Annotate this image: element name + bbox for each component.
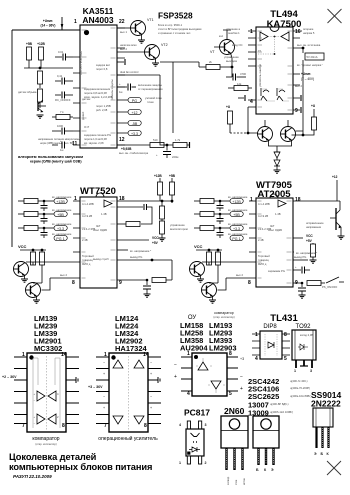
capacitor C11 bottom: [52, 140, 65, 152]
transistor VT1: [131, 18, 154, 36]
svg-text:компаратор: компаратор: [32, 436, 59, 442]
wire supply rail to pin 1: [12, 28, 80, 247]
wire left pin stubs U2: [248, 31, 256, 107]
transistor Q1 output: [258, 127, 273, 142]
ground gnd1: [37, 115, 44, 118]
svg-text:вых 2: вых 2: [60, 273, 67, 277]
svg-text:ФИО д: ФИО д: [258, 262, 267, 266]
capacitor input C5 B: [217, 214, 224, 224]
wire pin12 row: [117, 144, 190, 146]
svg-text:ЗкТ: ЗкТ: [96, 224, 101, 228]
IC U3 WT7520 body: [80, 193, 117, 288]
svg-text:ц(400б-12А 100Вт): ц(400б-12А 100Вт): [270, 410, 293, 414]
svg-text:+5V: +5V: [152, 241, 159, 245]
IC TL431 TO92 package: [292, 330, 316, 360]
wire SS9014 legs: [317, 427, 329, 448]
svg-text:−: −: [103, 395, 105, 399]
svg-text:2: 2: [205, 461, 207, 465]
svg-text:вых 2: вых 2: [236, 273, 243, 277]
svg-text:+12В: +12В: [154, 174, 162, 178]
text vx napr right: [117, 249, 151, 253]
node oval PG in B: [228, 233, 248, 241]
node +U: [226, 105, 231, 109]
resistor VCC pull B: [310, 243, 317, 263]
svg-text:3: 3: [310, 369, 312, 373]
svg-text:РАЗУП 22.10.2009: РАЗУП 22.10.2009: [13, 474, 52, 479]
svg-text:8: 8: [248, 280, 251, 286]
svg-text:MC3302: MC3302: [34, 344, 62, 353]
wire DIP8 A left pins: [181, 357, 192, 391]
svg-text:16: 16: [295, 29, 301, 35]
svg-text:вых 2: вых 2: [295, 84, 302, 88]
text fan control: [170, 224, 188, 231]
svg-text:+3.3: +3.3: [57, 227, 64, 231]
svg-text:задерж вкл: задерж вкл: [96, 64, 110, 67]
svg-text:напряж 5: напряж 5: [303, 31, 315, 35]
svg-text:мсек. звуков. 4,2-6,28В: мсек. звуков. 4,2-6,28В: [84, 95, 113, 99]
svg-text:TO92: TO92: [296, 324, 312, 330]
svg-text:1: 1: [187, 351, 190, 357]
svg-text:Торговый: Торговый: [82, 254, 94, 258]
svg-text:WT7520: WT7520: [80, 186, 116, 197]
svg-text:Б: Б: [256, 468, 259, 472]
svg-text:катод 2,3В: катод 2,3В: [300, 333, 313, 337]
svg-text:15: 15: [258, 49, 261, 53]
wire TL431 TO92 legs: [294, 360, 312, 373]
resistor 12k: [228, 82, 252, 91]
svg-text:напряжение: напряжение: [306, 226, 322, 229]
node oval PG out: [52, 233, 72, 241]
op-amp triangle C1: [196, 362, 212, 370]
transistor VT2: [145, 43, 168, 60]
svg-text:управление: управление: [170, 224, 185, 227]
svg-text:+3.3: +3.3: [131, 132, 138, 136]
label LM193 family: [209, 321, 237, 353]
IC U4 WT7905 body: [256, 194, 293, 287]
text DIP8 plusminus: [174, 357, 244, 392]
wire PG output B: [293, 255, 308, 260]
label FSP3528: [158, 11, 202, 36]
ground Q6: [209, 296, 216, 303]
svg-text:8: 8: [72, 280, 75, 286]
IC TL431 DIP8 package: [260, 331, 282, 359]
svg-text:вывод PG: вывод PG: [294, 255, 306, 259]
node +U right: [311, 104, 316, 117]
svg-text:+5В: +5В: [57, 213, 64, 217]
svg-text:VT1: VT1: [147, 18, 154, 22]
ground Q3: [21, 275, 28, 282]
op-amp triangle A1: [34, 391, 46, 402]
capacitor 1uF protect: [117, 83, 136, 94]
svg-text:0.01: 0.01: [58, 50, 64, 54]
svg-text:РG 1: РG 1: [56, 237, 64, 241]
capacitor C 0.01: [55, 50, 73, 61]
op-amp triangle B4: [134, 395, 152, 424]
svg-text:+Uпит.: +Uпит.: [301, 72, 311, 76]
svg-text:4700: 4700: [240, 72, 246, 76]
node oval +3.3V in B: [228, 223, 248, 231]
node junction dot: [166, 144, 169, 147]
svg-text:товарищ: товарищ: [82, 259, 94, 262]
svg-text:вентилятором: вентилятором: [170, 228, 188, 231]
IC DIP14 comparator package: [27, 353, 66, 432]
svg-text:усилитель ошибки: усилитель ошибки: [258, 64, 262, 87]
svg-text:+3 – 36V: +3 – 36V: [88, 385, 103, 389]
capacitor stub: [238, 95, 245, 101]
resistor input R12 B: [194, 199, 230, 204]
text TO220 B leg labels: [256, 468, 274, 472]
svg-text:вывод PG: вывод PG: [130, 255, 142, 259]
resistor input R12: [18, 199, 54, 204]
pin numbers TL431 DIP8: [255, 332, 287, 362]
svg-text:8: 8: [229, 351, 232, 357]
text comparator caption: [32, 436, 59, 446]
svg-text:1: 1: [250, 197, 253, 203]
transistor VT3: [210, 35, 235, 55]
svg-text:14: 14: [143, 352, 149, 358]
svg-text:ЗкТ: ЗкТ: [270, 224, 275, 228]
wire TO220 A legs: [227, 448, 243, 470]
node oval +3.3V in: [52, 223, 72, 231]
svg-text:(откр. коллектор): (откр. коллектор): [35, 442, 56, 446]
resistor 7k: [52, 110, 73, 120]
IC DIP14 opamp package: [109, 353, 148, 432]
svg-text:алгоритм пользования запуском: алгоритм пользования запуском: [18, 154, 83, 159]
capacitor input C5: [41, 214, 48, 224]
transistor TO220 B package: [253, 416, 279, 448]
svg-text:операционный усилитель: операционный усилитель: [98, 435, 158, 442]
wire VT3 collector: [223, 30, 231, 40]
svg-text:1м: 1м: [60, 148, 63, 152]
wire output transistors: [248, 107, 303, 150]
resistor +12V feed: [154, 174, 163, 201]
transistor Q6 out2 B: [202, 265, 250, 298]
text footer title: [9, 452, 152, 479]
svg-text:2.4В: 2.4В: [82, 238, 88, 242]
svg-text:PG: PG: [132, 99, 137, 103]
label SS9014/2N2222: [311, 390, 342, 409]
resistor VCC div2 B: [216, 252, 221, 265]
resistor R +5V sense: [26, 42, 33, 68]
svg-text:VT2: VT2: [161, 43, 168, 47]
IC PC817 package: [186, 429, 204, 456]
svg-text:12k: 12k: [237, 82, 242, 86]
op-amp triangle B2: [134, 360, 152, 376]
svg-text:вх. напряжение *: вх. напряжение *: [130, 249, 151, 253]
svg-text:включение защиты: включение защиты: [138, 84, 162, 87]
label OU / comparator headers: [188, 311, 235, 321]
pin numbers DIP14 A: [22, 352, 67, 429]
wire DIP14 B left pins: [96, 357, 109, 424]
power pin marker DIP14 B: [158, 377, 160, 383]
svg-text:компаратор: компаратор: [214, 311, 234, 315]
wire mid rail dashed: [230, 132, 246, 134]
capacitor pin9: [300, 95, 302, 113]
svg-text:вых 1: вых 1: [120, 30, 127, 34]
svg-text:заряжаем РG: заряжаем РG: [268, 269, 285, 273]
svg-text:исток: исток: [243, 477, 246, 485]
svg-text:0,41: 0,41: [57, 74, 63, 78]
capacitor 220u: [156, 145, 178, 159]
pin numbers PC817 bottom: [179, 461, 207, 465]
op-amp triangle B1: [103, 360, 123, 376]
svg-text:норм (38В реальн. вел. 5В): норм (38В реальн. вел. 5В): [40, 141, 74, 145]
svg-text:задержка сигнала PG: задержка сигнала PG: [84, 133, 111, 137]
svg-text:керам (ОЛВ (манту шай ОЗВ): керам (ОЛВ (манту шай ОЗВ): [30, 160, 82, 164]
transistor crowbar Q7: [330, 206, 341, 231]
text TO220 A leg labels: [227, 476, 246, 485]
svg-text:наличие всех: наличие всех: [120, 44, 137, 47]
transistor SS9014 TO92 package: [313, 408, 333, 427]
node VCC left B: [194, 244, 222, 251]
wire U4 inner pin name marks: [258, 201, 292, 283]
svg-text:порог 1,25В: порог 1,25В: [96, 104, 111, 108]
svg-text:+12В: +12В: [56, 200, 65, 204]
wire left pin stubs U1: [73, 30, 80, 145]
wire left pin stubs U3: [73, 201, 80, 278]
svg-text:220м: 220м: [172, 155, 178, 159]
node oval +12V in: [52, 196, 72, 204]
node +Upit 7-40V: [301, 72, 314, 81]
wire fan control: [117, 70, 160, 75]
svg-text:вых. вн. источника: вых. вн. источника: [297, 44, 321, 47]
resistor input R5 B: [194, 212, 230, 217]
wire DIP14 A right pins: [66, 357, 79, 424]
svg-text:Асел ОД2Б: Асел ОД2Б: [93, 228, 107, 232]
wire right pin stubs U1: [117, 28, 128, 145]
svg-text:PC817: PC817: [184, 408, 210, 418]
svg-text:ошибки 1: ошибки 1: [228, 31, 240, 35]
transistor Q5 out1 B: [190, 262, 250, 277]
wire TO220 B legs: [259, 448, 274, 465]
wire TL431 DIP8 pins: [252, 334, 290, 355]
switch PS_ON/OFF: [322, 277, 344, 289]
svg-text:Торговый: Торговый: [258, 254, 270, 258]
resistor input R33 B: [194, 226, 230, 231]
node VCC right B: [293, 234, 313, 243]
svg-text:AU2904: AU2904: [180, 344, 208, 353]
label 2SC power transistors: [248, 377, 311, 418]
svg-text:1: 1: [74, 19, 77, 25]
svg-text:8: 8: [62, 423, 65, 429]
svg-text:ФИО д: ФИО д: [82, 262, 91, 266]
resistor +5V feed: [162, 174, 176, 201]
capacitor input C33 B: [217, 228, 224, 238]
svg-text:protect: protect: [81, 112, 85, 120]
transistor Q left shutdown: [38, 100, 46, 112]
svg-text:товарищ: товарищ: [258, 259, 270, 262]
op-amp triangle B3: [103, 395, 123, 424]
wire Vref rail down: [292, 60, 304, 135]
svg-text:8: 8: [284, 332, 287, 338]
svg-text:9: 9: [295, 108, 298, 114]
wire down from VT3: [231, 67, 233, 77]
pin labels U1: [72, 19, 125, 147]
wire KA3511 to TL494 link: [160, 62, 199, 145]
wire left pin stubs U4: [249, 201, 256, 278]
svg-text:мс. звуков. 2,08: мс. звуков. 2,08: [84, 141, 104, 145]
node Vref box 5V 20mA: [297, 44, 324, 60]
resistor 510: [150, 138, 164, 148]
wire sense junction: [24, 67, 73, 69]
text crowbar: [306, 222, 324, 229]
svg-text:4.2-9.2В: 4.2-9.2В: [82, 214, 92, 218]
svg-text:−: −: [240, 374, 243, 380]
svg-text:(откр. коллектор): (откр. коллектор): [213, 315, 234, 319]
svg-text:ОчТ: ОчТ: [84, 125, 89, 129]
svg-text:4.1-4.28В: 4.1-4.28В: [82, 202, 94, 206]
svg-text:3: 3: [205, 423, 207, 427]
svg-text:VCC: VCC: [306, 234, 313, 238]
svg-text:VCC: VCC: [194, 244, 203, 249]
svg-text:1м: 1м: [119, 90, 122, 94]
IC U1 KA3511 body: [79, 25, 117, 148]
ground crowbar: [338, 231, 345, 239]
capacitor input C12: [41, 201, 48, 211]
op-amp triangle C2: [208, 381, 225, 389]
pin labels U2: [250, 29, 301, 114]
X mark top right: [328, 9, 342, 23]
X mark bottom right: [327, 461, 341, 475]
wire DIP8 A right pins: [227, 357, 238, 391]
node dot VT3: [231, 66, 234, 69]
svg-text:1.4В: 1.4В: [101, 212, 107, 216]
svg-text:−: −: [103, 361, 105, 365]
wire DIP14 A left pins: [14, 357, 27, 424]
power pin marker DIP14 A: [76, 377, 78, 383]
resistor fan loop: [117, 222, 140, 227]
wire U2 inner pin name marks: [258, 31, 293, 110]
svg-text:+U: +U: [226, 105, 231, 109]
svg-text:−: −: [150, 395, 152, 399]
svg-text:ц(400-7к 400-): ц(400-7к 400-): [290, 379, 308, 383]
text left pin notes U2: [224, 28, 243, 63]
svg-text:+2 – 36V: +2 – 36V: [2, 375, 17, 379]
svg-text:VCC: VCC: [152, 236, 159, 240]
svg-text:вход ОС: вход ОС: [232, 43, 243, 47]
svg-text:5: 5: [284, 356, 287, 362]
node oval +12V in B: [228, 196, 248, 204]
svg-text:2.4В: 2.4В: [258, 238, 264, 242]
svg-text:+5В: +5В: [169, 174, 176, 178]
resistor 2k: [199, 60, 232, 70]
ground Q4: [33, 296, 40, 303]
node +12 crowbar supply: [332, 175, 338, 179]
capacitor pin9 gnd B: [293, 282, 306, 299]
resistor +U pullup: [302, 117, 317, 136]
svg-text:порог 0,8: порог 0,8: [96, 67, 108, 71]
svg-text:вывод строб: вывод строб: [93, 257, 109, 261]
text SS9014 leg labels: [314, 452, 330, 456]
svg-text:порога 1,6 мс/2,08: порога 1,6 мс/2,08: [84, 137, 107, 141]
node +Upit supply: [41, 17, 64, 30]
label LM139 family: [34, 314, 62, 353]
capacitor 4700: [226, 72, 246, 81]
svg-text:VCC: VCC: [18, 244, 27, 249]
text right notes B: [293, 251, 317, 255]
svg-text:управление: управление: [224, 56, 239, 59]
svg-text:от перенапряжения: от перенапряжения: [138, 88, 163, 91]
svg-text:+12: +12: [131, 111, 137, 115]
op-amp triangle A2: [34, 414, 46, 425]
svg-text:порога 0,8 мс/2,08: порога 0,8 мс/2,08: [84, 91, 107, 95]
svg-text:стоит в БП электродвиж выходам: стоит в БП электродвиж выходами: [158, 27, 202, 31]
wire pin to VT2: [117, 44, 145, 52]
ground VT2 emitter: [152, 58, 159, 66]
resistor divider R3: [38, 71, 43, 88]
svg-text:вх. "провал напряж.": вх. "провал напряж.": [297, 63, 323, 67]
wire pin18 row B: [293, 180, 340, 206]
svg-text:−: −: [150, 361, 152, 365]
svg-text:вх. напряжение *: вх. напряжение *: [296, 251, 317, 255]
IC DIP8 dual package: [192, 353, 227, 396]
pin numbers DIP8 A: [187, 351, 232, 397]
svg-text:+5В: +5В: [233, 213, 240, 217]
wire pin18 row: [117, 201, 162, 206]
svg-text:датчик обрыва: датчик обрыва: [18, 90, 37, 94]
pin labels U3: [72, 196, 125, 286]
svg-text:сток: сток: [235, 479, 238, 485]
svg-text:4: 4: [179, 423, 181, 427]
svg-text:Цоколевка деталей: Цоколевка деталей: [9, 452, 97, 462]
svg-text:22: 22: [119, 19, 125, 25]
svg-text:VT: VT: [210, 50, 215, 54]
svg-text:+5V: +5V: [306, 239, 313, 243]
svg-text:Б: Б: [321, 452, 324, 456]
ground VT1 emitter: [138, 34, 145, 43]
resistor input R33: [18, 226, 54, 231]
svg-text:+: +: [103, 372, 105, 376]
svg-text:усиление а: усиление а: [226, 28, 240, 31]
wire PC817 bottom pins: [187, 456, 201, 464]
ground fan divider: [159, 238, 166, 241]
svg-text:1: 1: [255, 332, 258, 338]
svg-text:+12В: +12В: [37, 42, 45, 46]
resistor to +U: [228, 111, 233, 133]
wire PC817 top pins: [187, 421, 201, 429]
node +3.3V: [128, 131, 141, 136]
pin numbers PC817 top: [179, 423, 207, 427]
label LM158 family: [180, 321, 208, 353]
svg-text:задержка включения: задержка включения: [84, 88, 111, 91]
transistor TO220 A package: [221, 416, 248, 448]
svg-text:2N60: 2N60: [224, 406, 245, 416]
node oval +5V in B: [228, 209, 248, 217]
capacitor C on pin: [117, 59, 125, 65]
ground output: [274, 166, 281, 173]
label WT7905/AT2005: [256, 180, 293, 200]
svg-text:Блок из игр. 9500-1: Блок из игр. 9500-1: [158, 23, 183, 27]
svg-text:-5В: -5В: [132, 122, 138, 126]
svg-text:18: 18: [295, 197, 301, 203]
capacitor 1000: [52, 124, 73, 135]
svg-text:8: 8: [144, 423, 147, 429]
pin numbers DIP14 B: [104, 352, 149, 429]
resistor divider R4: [38, 89, 43, 108]
capacitor C2 + RC_ON/OFF: [55, 92, 73, 103]
diode D1: [274, 150, 280, 158]
svg-text:12: 12: [119, 137, 125, 143]
svg-text:компьютерных блоков питания: компьютерных блоков питания: [9, 462, 152, 472]
svg-text:4: 4: [255, 356, 258, 362]
svg-text:5: 5: [229, 391, 232, 397]
text +5.93V: [119, 147, 149, 155]
svg-text:вых. вн. стабилизатора: вых. вн. стабилизатора: [119, 151, 149, 155]
svg-text:исправленное: исправленное: [306, 222, 324, 225]
svg-text:RC_ON/OFF: RC_ON/OFF: [55, 98, 71, 102]
wire PG output: [117, 255, 153, 261]
svg-text:+5,93В: +5,93В: [121, 147, 132, 151]
